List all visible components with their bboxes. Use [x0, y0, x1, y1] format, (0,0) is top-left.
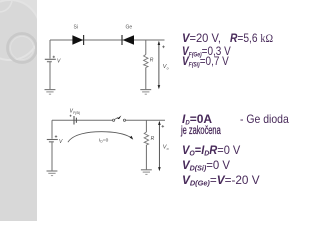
svg-text:=0: =0: [103, 138, 109, 144]
ground (top circuit, left): [45, 90, 56, 95]
label Vo (top circuit): [163, 64, 169, 71]
text block top right: [182, 32, 224, 44]
svg-text:o: o: [167, 67, 169, 71]
wire left vertical to battery (top circuit): [49, 40, 51, 59]
wire to resistor (bottom circuit): [145, 120, 147, 132]
wire resistor to ground (bottom circuit): [145, 145, 147, 170]
label VF(Si): [70, 109, 81, 115]
wire to resistor (top circuit): [145, 40, 147, 55]
wire top horizontal left of switch (bottom circuit): [52, 119, 112, 121]
label Ge: [126, 25, 133, 31]
wire battery to ground (bottom circuit): [51, 142, 53, 171]
voltage source VF(Si) cell on top wire (bottom circuit): [70, 115, 77, 125]
svg-text:o: o: [167, 147, 169, 151]
diode Si (top circuit): [72, 35, 83, 45]
battery V (top circuit): [45, 56, 56, 62]
label Si: [74, 25, 78, 31]
ground (bottom circuit, right): [141, 170, 152, 175]
svg-text:Ge: Ge: [126, 25, 133, 31]
sidebar: [0, 0, 37, 221]
label ID=0: [99, 138, 109, 144]
resistor R (bottom circuit): [144, 132, 148, 145]
label V (top battery): [57, 59, 61, 65]
wire resistor to ground (top circuit): [145, 68, 147, 90]
label R (top resistor): [150, 58, 154, 64]
current arc ID=0 (bottom circuit): [68, 132, 133, 143]
ground (bottom circuit, left): [47, 171, 58, 176]
wire battery to ground (top circuit): [49, 62, 51, 89]
label Vo (bottom circuit): [163, 145, 169, 152]
svg-text:F(Si): F(Si): [73, 111, 80, 115]
open switch (bottom circuit): [113, 115, 126, 121]
svg-text:V: V: [59, 139, 63, 145]
svg-text:R: R: [150, 58, 154, 64]
wire top horizontal right of switch (bottom circuit): [126, 119, 165, 121]
output voltage arrow Vo (bottom circuit): [158, 121, 164, 172]
label R (bottom resistor): [151, 136, 155, 142]
wire left vertical to battery (bottom circuit): [51, 120, 53, 139]
svg-text:Si: Si: [74, 25, 78, 31]
resistor R (top circuit): [144, 55, 148, 68]
battery V (bottom circuit): [47, 135, 58, 142]
svg-text:R: R: [151, 136, 155, 142]
output voltage arrow Vo (top circuit): [158, 41, 165, 90]
diode Ge (top circuit): [122, 35, 134, 45]
svg-text:V: V: [57, 59, 61, 65]
label V (bottom battery): [59, 139, 63, 145]
ground (top circuit, right): [140, 90, 151, 95]
wire top horizontal (top circuit): [50, 39, 165, 41]
text block bottom right: [182, 113, 212, 125]
